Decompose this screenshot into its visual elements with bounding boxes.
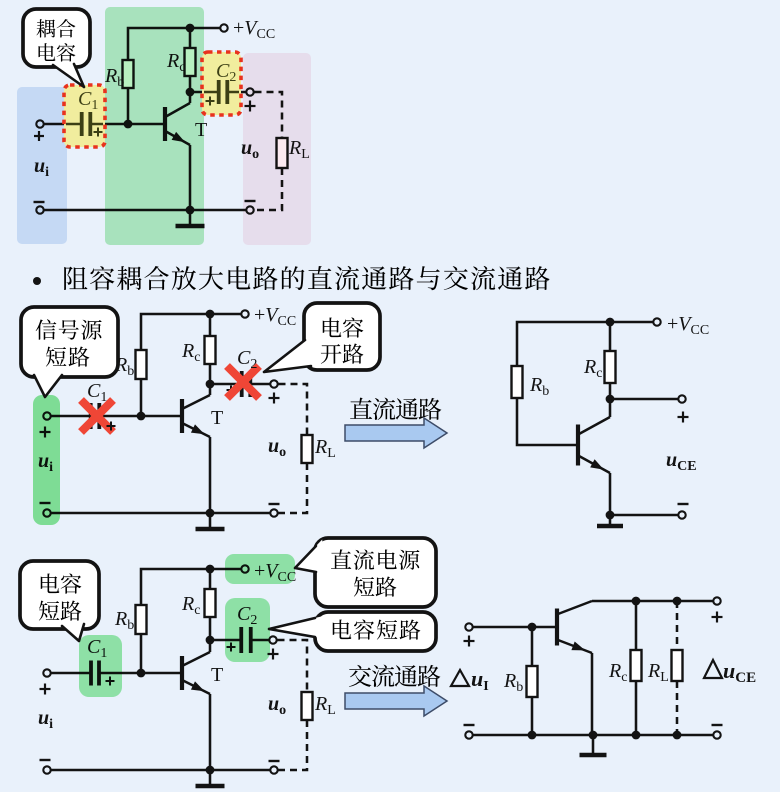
node: Rc top junction bbox=[186, 24, 195, 33]
wire: base node to transistor (bottom) bbox=[141, 672, 180, 675]
wire: input to base (AC circuit) bbox=[474, 626, 556, 629]
svg-text:RL: RL bbox=[314, 693, 336, 718]
wire: base node to transistor (middle) bbox=[141, 415, 180, 418]
heading text bbox=[64, 267, 87, 290]
plus mark output (middle) bbox=[269, 397, 280, 399]
arrow: AC path bbox=[345, 686, 447, 716]
transistor T (middle) bbox=[180, 399, 184, 433]
wire: C1 to base node (bottom) bbox=[99, 672, 141, 675]
wire: collector node to C2 (middle) bbox=[210, 383, 242, 386]
wire: top rail to Vcc bbox=[128, 28, 220, 60]
resistor Rb (AC circuit) bbox=[527, 666, 538, 697]
resistor RL bbox=[277, 138, 288, 168]
wire: Rc to collector node (bottom) bbox=[209, 617, 212, 640]
plus mark input (AC circuit) bbox=[464, 640, 475, 642]
plus mark C2 (olive) bbox=[206, 100, 215, 102]
svg-text:T: T bbox=[211, 407, 223, 429]
capacitor C1 bbox=[80, 112, 84, 136]
capacitor C2 (bottom) bbox=[239, 627, 243, 653]
plus mark C2 (middle) bbox=[227, 389, 236, 391]
callout bubble: capacitor open bbox=[304, 303, 380, 370]
terminal +Vcc (bottom) bbox=[241, 565, 248, 572]
ground (AC circuit) bbox=[592, 735, 595, 754]
label delta uI bbox=[451, 670, 469, 686]
terminal: input + bbox=[36, 120, 43, 127]
node: collector junction (bottom) bbox=[206, 636, 215, 645]
resistor Rc (DC circuit) bbox=[605, 351, 616, 383]
plus mark C2 bbox=[206, 100, 215, 102]
terminal: output + (AC circuit) bbox=[713, 597, 720, 604]
dashed wire: output to RL (middle) bbox=[279, 384, 308, 435]
node: emitter bottom (AC circuit) bbox=[589, 731, 598, 740]
bullet point bbox=[33, 277, 41, 285]
wire: Rc branch from rail bbox=[189, 28, 192, 48]
capacitor C1 (middle) bbox=[89, 403, 93, 429]
wire: Rc branch (AC circuit) bbox=[635, 601, 638, 735]
wire: top rail to Vcc (middle circuit) bbox=[141, 314, 241, 350]
green highlight box C1 shorted bbox=[79, 635, 122, 697]
plus mark input bbox=[34, 135, 44, 137]
node: Rc top (AC circuit) bbox=[632, 597, 641, 606]
wire: collector node to C2 bbox=[190, 91, 219, 94]
wire: C1 to base node bbox=[90, 123, 128, 126]
terminal: output - (AC circuit) bbox=[713, 731, 720, 738]
svg-text:RL: RL bbox=[314, 436, 336, 461]
green highlight box C2 shorted bbox=[225, 598, 270, 662]
dashed wire: output to RL top bbox=[255, 92, 283, 138]
terminal: input + (bottom) bbox=[43, 669, 50, 676]
ground (middle) bbox=[209, 513, 212, 528]
node: collector (DC circuit) bbox=[606, 395, 615, 404]
svg-text:Rc: Rc bbox=[583, 356, 602, 381]
node: collector junction (middle) bbox=[206, 380, 215, 389]
arrow: DC path bbox=[345, 418, 447, 448]
terminal: input - (middle) bbox=[43, 509, 50, 516]
wire: C2 to output (bottom) bbox=[251, 639, 269, 642]
resistor Rc (bottom) bbox=[205, 589, 216, 617]
wire: input to C1 bbox=[45, 123, 83, 126]
svg-text:Rb: Rb bbox=[114, 608, 134, 633]
purple highlight band (load) bbox=[243, 53, 311, 245]
transistor T (AC circuit) bbox=[555, 609, 559, 646]
plus mark C1 (bottom) bbox=[106, 680, 115, 682]
green highlight box Vcc shorted bbox=[225, 554, 295, 584]
minus mark input bbox=[34, 201, 45, 203]
resistor Rc (middle) bbox=[205, 336, 216, 364]
node: base junction bbox=[124, 120, 133, 129]
node: RL bottom (AC circuit) bbox=[673, 731, 682, 740]
svg-text:Rb: Rb bbox=[503, 670, 523, 695]
plus mark output bbox=[245, 105, 256, 107]
callout bubble: coupling capacitor bbox=[23, 9, 90, 67]
red X over C1 (signal source removed) bbox=[81, 400, 113, 432]
node: emitter bottom junction bbox=[186, 206, 195, 215]
label delta uCE bbox=[704, 660, 722, 678]
wire: Rc branch (bottom) bbox=[209, 569, 212, 589]
minus mark output bbox=[245, 200, 256, 202]
node: Rb top (AC circuit) bbox=[528, 623, 537, 632]
capacitor C2 plates (olive) bbox=[217, 80, 221, 104]
wire: C2 to output (middle) bbox=[250, 383, 270, 386]
wire: Rc to collector node (middle) bbox=[209, 364, 212, 384]
svg-text:uo: uo bbox=[268, 693, 286, 718]
wire: Rb branch (AC circuit) bbox=[531, 627, 534, 735]
transistor T bbox=[163, 107, 167, 141]
dashed wire: RL bottom (bottom circuit) bbox=[279, 720, 308, 770]
resistor Rb (bottom) bbox=[136, 605, 147, 634]
svg-text:ui: ui bbox=[38, 707, 53, 732]
terminal: output + (bottom) bbox=[269, 636, 276, 643]
resistor Rb (DC circuit) bbox=[512, 366, 523, 398]
resistor RL (middle) bbox=[302, 435, 313, 463]
wire: Rb bottom to base node bbox=[127, 88, 130, 124]
terminal: output - (DC circuit) bbox=[678, 511, 685, 518]
node: emitter junction (bottom) bbox=[206, 766, 215, 775]
resistor RL (bottom) bbox=[302, 692, 313, 720]
terminal: output + (middle) bbox=[270, 380, 277, 387]
terminal: input - (bottom) bbox=[43, 766, 50, 773]
ground (DC circuit) bbox=[609, 515, 612, 525]
wire: Rc branch (middle) bbox=[209, 314, 212, 336]
svg-text:C1: C1 bbox=[87, 380, 107, 405]
wire: top rail (DC circuit) bbox=[517, 322, 653, 366]
node: Rb bottom (AC circuit) bbox=[528, 731, 537, 740]
terminal +Vcc (middle) bbox=[241, 310, 248, 317]
wire: bottom rail (bottom circuit) bbox=[52, 769, 270, 772]
node: Rc top (bottom) bbox=[206, 565, 215, 574]
wire: bottom rail (middle) bbox=[52, 512, 270, 515]
transistor T (bottom) bbox=[180, 656, 184, 690]
node: Rc bottom (AC circuit) bbox=[632, 731, 641, 740]
wire: base node to transistor bbox=[128, 123, 163, 126]
ground (bottom circuit) bbox=[209, 770, 212, 785]
resistor Rc (AC circuit) bbox=[631, 650, 642, 681]
callout bubble: DC supply shorted bbox=[315, 538, 436, 607]
terminal: output - (bottom) bbox=[270, 766, 277, 773]
svg-text:Rb: Rb bbox=[529, 374, 549, 399]
wire: input to C1 (bottom) bbox=[52, 672, 92, 675]
svg-text:uI: uI bbox=[471, 666, 489, 694]
resistor Rc bbox=[185, 48, 196, 76]
minus mark (DC circuit) bbox=[678, 503, 689, 505]
terminal +Vcc (DC circuit) bbox=[653, 318, 660, 325]
terminal: output + (DC circuit) bbox=[678, 395, 685, 402]
green highlight band (amplifier) bbox=[105, 7, 204, 245]
label: AC path bbox=[349, 665, 371, 687]
node: emitter bottom (DC circuit) bbox=[606, 511, 615, 520]
minus mark output (bottom) bbox=[269, 760, 280, 762]
callout bubble: capacitor shorted (right) bbox=[315, 612, 436, 651]
plus mark output (AC circuit) bbox=[712, 616, 723, 618]
wire: emitter to output ground (DC circuit) bbox=[610, 514, 678, 517]
terminal +Vcc bbox=[220, 24, 227, 31]
terminal: output - bbox=[246, 206, 253, 213]
wire: input to C1 (middle) bbox=[52, 415, 91, 418]
terminal: output + bbox=[246, 88, 253, 95]
transistor T (DC circuit) bbox=[576, 425, 580, 466]
terminal: input + (AC circuit) bbox=[465, 623, 472, 630]
wire: C1 to base node (middle) bbox=[99, 415, 141, 418]
dashed wire: RL bottom to output ground terminal bbox=[255, 168, 283, 210]
svg-text:uCE: uCE bbox=[723, 658, 756, 686]
plus mark C2 (bottom) bbox=[227, 646, 236, 648]
minus mark input (bottom) bbox=[40, 759, 51, 761]
wire through C1 box (olive) bbox=[66, 123, 103, 125]
node: RL top (AC circuit) bbox=[673, 597, 682, 606]
minus mark input (AC circuit) bbox=[464, 724, 475, 726]
label: DC path bbox=[350, 398, 372, 419]
minus mark input (middle) bbox=[40, 502, 51, 504]
dashed wire: output to RL (bottom) bbox=[278, 640, 308, 692]
plus mark input (middle) bbox=[40, 431, 51, 433]
svg-text:+VCC: +VCC bbox=[233, 17, 275, 42]
wire: Rb bottom to base node (middle) bbox=[140, 379, 143, 416]
svg-text:Rc: Rc bbox=[608, 660, 627, 685]
ground bbox=[189, 210, 192, 225]
svg-text:uo: uo bbox=[268, 435, 286, 460]
capacitor C2 bbox=[217, 80, 221, 104]
wire: collector to C2 (bottom) bbox=[210, 639, 241, 642]
plus mark C1 bbox=[94, 131, 103, 133]
resistor Rb (middle) bbox=[136, 350, 147, 379]
callout bubble: signal source shorted bbox=[21, 307, 118, 377]
svg-text:T: T bbox=[211, 664, 223, 686]
dashed wire: RL branch bottom (AC circuit) bbox=[676, 681, 679, 735]
wire: C2 to output terminal bbox=[227, 91, 246, 94]
resistor Rb bbox=[123, 60, 134, 88]
node: emitter junction (middle) bbox=[206, 509, 215, 518]
wire: collector rail (AC circuit) bbox=[592, 600, 713, 603]
minus mark output (middle) bbox=[269, 503, 280, 505]
wire: Rc to collector (DC circuit) bbox=[609, 383, 612, 399]
wire: collector node to output (DC circuit) bbox=[610, 398, 678, 401]
terminal: input - (AC circuit) bbox=[465, 731, 472, 738]
plus mark (DC circuit) bbox=[678, 416, 689, 418]
terminal: input - bbox=[36, 206, 43, 213]
red dotted border C2 box bbox=[202, 52, 241, 115]
wire: Rc bottom to collector node bbox=[189, 76, 192, 92]
plus mark input (bottom) bbox=[40, 688, 51, 690]
dashed wire: RL branch top (AC circuit) bbox=[676, 601, 679, 650]
dashed wire: RL bottom (middle) bbox=[279, 463, 308, 513]
wire: Rb to base (DC circuit) bbox=[517, 398, 576, 445]
wire: bottom rail bbox=[45, 209, 246, 212]
capacitor C2 (middle) bbox=[240, 371, 244, 397]
green highlight band ui source (middle) bbox=[33, 395, 60, 525]
svg-text:C2: C2 bbox=[237, 347, 257, 372]
node: base junction (middle) bbox=[137, 412, 146, 421]
svg-text:+VCC: +VCC bbox=[667, 313, 709, 338]
plus mark C1 (middle) bbox=[107, 425, 116, 427]
callout bubble: capacitor shorted (left) bbox=[20, 561, 99, 629]
svg-text:uCE: uCE bbox=[666, 449, 697, 474]
resistor RL (AC circuit) bbox=[672, 650, 683, 681]
plus mark C1 (olive) bbox=[94, 131, 103, 133]
node: Rc top (DC circuit) bbox=[606, 318, 615, 327]
red dotted border C1 box bbox=[64, 85, 105, 147]
svg-text:+VCC: +VCC bbox=[254, 304, 296, 329]
wire: Rc branch (DC circuit) bbox=[609, 322, 612, 351]
plus mark output (bottom) bbox=[268, 653, 279, 655]
yellow highlight box C2 bbox=[202, 52, 241, 115]
wire through C2 box (olive) bbox=[204, 91, 239, 93]
red X over C2 (capacitor open) bbox=[227, 366, 259, 398]
wire: bottom rail (AC circuit) bbox=[474, 734, 713, 737]
yellow highlight box C1 bbox=[64, 85, 105, 147]
minus mark output (AC circuit) bbox=[712, 724, 723, 726]
svg-text:RL: RL bbox=[647, 660, 669, 685]
svg-text:Rc: Rc bbox=[181, 340, 200, 365]
wire: Rb to base node (bottom) bbox=[140, 634, 143, 673]
capacitor C1 (bottom) bbox=[89, 661, 93, 686]
terminal: output - (middle) bbox=[270, 509, 277, 516]
node: base junction (bottom) bbox=[137, 669, 146, 678]
svg-text:Rc: Rc bbox=[181, 593, 200, 618]
blue highlight band (input source) bbox=[17, 87, 67, 244]
node: collector junction bbox=[186, 88, 195, 97]
terminal: input + (middle) bbox=[43, 412, 50, 419]
wire: top rail to Vcc (bottom circuit) bbox=[141, 569, 241, 605]
capacitor C1 plates (olive) bbox=[80, 112, 84, 136]
node: Rc top junction (middle) bbox=[206, 310, 215, 319]
